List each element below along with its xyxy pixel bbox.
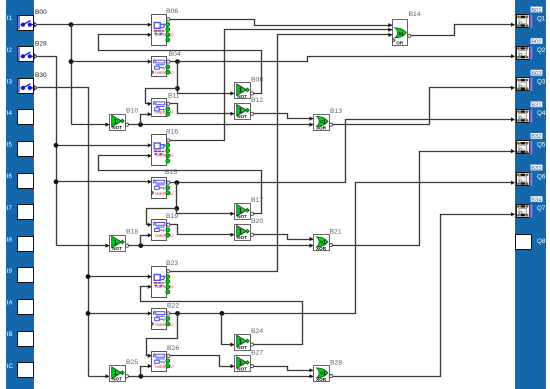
svg-text:〈MER.BA〉: 〈MER.BA〉 bbox=[153, 233, 176, 238]
svg-text:NOT: NOT bbox=[237, 94, 247, 99]
svg-text:I2: I2 bbox=[7, 47, 13, 54]
switch B00 (input I1) bbox=[7, 9, 47, 31]
svg-text:B22: B22 bbox=[167, 302, 179, 309]
wire B06 out to B14 in1 bbox=[169, 20, 393, 28]
wire B22 out to Q6 bbox=[169, 181, 515, 316]
svg-text:IC: IC bbox=[7, 363, 14, 370]
wire I2 branch to B15 in1 bbox=[54, 179, 152, 184]
svg-text:I7: I7 bbox=[7, 205, 13, 212]
input cell I8 bbox=[7, 236, 34, 251]
svg-text:I8: I8 bbox=[7, 236, 13, 243]
wire B26 out to B27 in bbox=[169, 356, 235, 369]
input cell I9 bbox=[7, 268, 34, 283]
wire B15 branch to B17 in bbox=[177, 209, 235, 216]
output lamp B03 (output Q3) bbox=[517, 70, 546, 91]
input cell I5 bbox=[7, 142, 34, 157]
svg-text:B32: B32 bbox=[531, 134, 541, 140]
XOR gate B28 bbox=[314, 359, 343, 382]
wire B04 out to Q2 bbox=[169, 54, 515, 64]
svg-text:Q5: Q5 bbox=[537, 142, 546, 149]
svg-text:B01: B01 bbox=[531, 8, 541, 14]
svg-text:XOR: XOR bbox=[316, 246, 327, 251]
wire I2 branch to B16 in1 bbox=[54, 143, 152, 148]
svg-text:I1: I1 bbox=[7, 15, 13, 22]
output lamp B34 (output Q7) bbox=[517, 196, 546, 217]
wire B25 branch to B26 in2 bbox=[141, 364, 152, 377]
svg-text:B06: B06 bbox=[166, 8, 178, 15]
svg-text:B26: B26 bbox=[167, 345, 179, 352]
svg-text:B34: B34 bbox=[531, 197, 542, 203]
svg-text:B17: B17 bbox=[251, 197, 263, 204]
wire B21 out to Q5 bbox=[332, 149, 515, 246]
wire B13 out to Q3 bbox=[332, 86, 515, 125]
function block B04 bbox=[151, 51, 181, 77]
svg-text:B20: B20 bbox=[251, 218, 263, 225]
wire B15 out to Q4 bbox=[169, 117, 515, 185]
OR gate B14 bbox=[392, 11, 421, 46]
svg-text:NOT: NOT bbox=[237, 367, 247, 372]
output terminal strip bbox=[515, 0, 546, 389]
svg-text:NOT: NOT bbox=[237, 235, 247, 240]
wire B04 branch to B08 in bbox=[178, 91, 235, 95]
svg-text:XOR: XOR bbox=[316, 377, 327, 382]
svg-text:B04: B04 bbox=[169, 51, 181, 58]
wire I3 branch to B22 in1 bbox=[86, 311, 152, 316]
svg-text:〈MER.BA〉: 〈MER.BA〉 bbox=[153, 153, 176, 158]
wire I1/B00 out to B06 in1 bbox=[38, 22, 152, 27]
inverter B20 bbox=[235, 218, 264, 241]
wire B10 branch to B11 in2 bbox=[141, 112, 152, 124]
wire B20 out to B21 in1 bbox=[253, 235, 314, 242]
svg-text:B23: B23 bbox=[166, 260, 178, 267]
switch B30 (input I3) bbox=[7, 72, 47, 93]
output cell Q8 bbox=[516, 235, 546, 250]
svg-text:B11: B11 bbox=[168, 93, 180, 100]
svg-text:OR: OR bbox=[396, 40, 404, 45]
wire B08 out to B06 in2 bbox=[99, 33, 262, 94]
XOR gate B21 bbox=[314, 228, 342, 251]
inverter B08 bbox=[235, 77, 264, 99]
output lamp B01 (output Q1) bbox=[517, 7, 546, 28]
wire B16 out to B14 in2 bbox=[169, 28, 393, 141]
inverter B10 bbox=[110, 108, 139, 131]
wire B25 out to B28 in2 bbox=[128, 374, 314, 379]
svg-text:B13: B13 bbox=[330, 108, 342, 115]
wire B18 branch to B19 in2 bbox=[141, 233, 152, 245]
svg-text:〈MER.BA〉: 〈MER.BA〉 bbox=[153, 32, 176, 37]
wire B10 out to B13 in2 bbox=[128, 122, 314, 127]
output lamp B02 (output Q2) bbox=[517, 38, 546, 59]
output lamp B31 (output Q4) bbox=[517, 101, 546, 122]
wire I2/B29 out to column bbox=[38, 57, 57, 246]
inverter B12 bbox=[235, 97, 264, 119]
svg-text:〈MER.BA〉: 〈MER.BA〉 bbox=[153, 109, 176, 114]
svg-text:≥1: ≥1 bbox=[399, 31, 405, 36]
svg-text:B08: B08 bbox=[251, 77, 263, 84]
svg-text:I3: I3 bbox=[7, 78, 13, 85]
svg-text:I4: I4 bbox=[7, 110, 13, 117]
svg-text:〈MER.BA〉: 〈MER.BA〉 bbox=[153, 322, 176, 327]
svg-text:B14: B14 bbox=[409, 11, 421, 18]
svg-text:〈MER.BA〉: 〈MER.BA〉 bbox=[153, 364, 176, 369]
svg-text:B31: B31 bbox=[531, 103, 541, 109]
svg-text:I9: I9 bbox=[7, 268, 13, 275]
svg-text:NOT: NOT bbox=[237, 114, 247, 119]
wire B24 out to B23 in2 bbox=[141, 285, 303, 345]
wire I1 branch to B10 in bbox=[72, 123, 110, 127]
svg-text:Q8: Q8 bbox=[537, 238, 546, 245]
wire B18 out to B21 in2 bbox=[128, 243, 314, 248]
svg-text:〈MER.BA〉: 〈MER.BA〉 bbox=[153, 70, 176, 75]
svg-text:Q6: Q6 bbox=[537, 173, 546, 180]
output lamp B33 (output Q6) bbox=[517, 165, 546, 186]
svg-text:B29: B29 bbox=[35, 41, 47, 48]
wire I1 branch down bbox=[71, 25, 73, 125]
wire I3/B30 out to column bbox=[38, 88, 89, 377]
function block B26 bbox=[152, 345, 180, 372]
svg-text:B10: B10 bbox=[126, 108, 138, 115]
wire B12 out to B13 in1 bbox=[253, 114, 314, 121]
wire B04 out branch down bbox=[175, 62, 180, 94]
svg-text:XOR: XOR bbox=[316, 125, 327, 130]
input terminal strip bbox=[6, 0, 34, 389]
function block B23 bbox=[152, 260, 179, 298]
switch B29 (input I2) bbox=[7, 41, 47, 62]
svg-text:NOT: NOT bbox=[112, 125, 122, 130]
wire I2 to B18 in bbox=[57, 244, 110, 248]
svg-text:B00: B00 bbox=[35, 9, 47, 16]
wire B14 out to Q1 bbox=[410, 23, 515, 36]
svg-text:B30: B30 bbox=[35, 72, 47, 79]
inverter B17 bbox=[235, 197, 264, 220]
input cell IB bbox=[7, 331, 34, 346]
wire B22 branch to B24 in bbox=[222, 314, 235, 347]
svg-text:B02: B02 bbox=[531, 39, 541, 45]
input cell IC bbox=[7, 363, 34, 378]
wire I3 to B25 in bbox=[89, 374, 110, 378]
svg-text:B16: B16 bbox=[166, 129, 178, 136]
svg-text:B19: B19 bbox=[166, 213, 178, 220]
svg-text:NOT: NOT bbox=[112, 246, 122, 251]
svg-text:Q2: Q2 bbox=[537, 47, 546, 54]
svg-text:IA: IA bbox=[7, 300, 14, 307]
svg-text:I6: I6 bbox=[7, 173, 13, 180]
svg-text:B24: B24 bbox=[251, 328, 263, 335]
svg-text:B21: B21 bbox=[330, 228, 342, 235]
svg-text:B15: B15 bbox=[165, 169, 177, 176]
wire I1 branch to B04 in1 bbox=[69, 59, 152, 64]
wire B17 out to B16 in2 bbox=[99, 154, 262, 214]
svg-text:B28: B28 bbox=[330, 359, 342, 366]
function block B16 bbox=[152, 129, 179, 166]
wire B11 out to B12 in bbox=[169, 104, 235, 116]
inverter B27 bbox=[235, 349, 264, 371]
wire B15 branch to B19 in1 bbox=[147, 209, 177, 227]
svg-text:Q4: Q4 bbox=[537, 110, 546, 117]
input cell I6 bbox=[7, 173, 34, 188]
wire B28 out to Q7 bbox=[332, 212, 515, 376]
svg-text:I5: I5 bbox=[7, 142, 13, 149]
function block B06 bbox=[152, 8, 179, 46]
svg-text:NOT: NOT bbox=[112, 377, 122, 382]
svg-text:IB: IB bbox=[7, 331, 13, 338]
svg-text:B33: B33 bbox=[531, 166, 541, 172]
wire B19 out to B20 in bbox=[169, 225, 235, 237]
svg-text:NOT: NOT bbox=[237, 214, 247, 219]
svg-text:B12: B12 bbox=[251, 97, 263, 104]
wire B27 out to B28 in1 bbox=[253, 367, 314, 373]
svg-text:B03: B03 bbox=[531, 71, 541, 77]
function block B11 bbox=[152, 93, 180, 117]
function block B22 bbox=[151, 302, 179, 329]
svg-text:〈MER.BA〉: 〈MER.BA〉 bbox=[153, 284, 176, 289]
wire B22 branch to B26 in1 bbox=[147, 314, 178, 358]
function block B19 bbox=[152, 213, 179, 241]
inverter B18 bbox=[110, 229, 139, 252]
input cell I7 bbox=[7, 205, 34, 220]
svg-text:NOT: NOT bbox=[237, 345, 247, 350]
svg-text:B18: B18 bbox=[126, 229, 138, 236]
output lamp B32 (output Q5) bbox=[517, 133, 546, 154]
input cell I4 bbox=[7, 110, 34, 125]
svg-text:Q1: Q1 bbox=[537, 15, 546, 22]
inverter B24 bbox=[235, 328, 264, 351]
svg-text:Q7: Q7 bbox=[537, 205, 546, 212]
svg-text:〈MER.BA〉: 〈MER.BA〉 bbox=[153, 191, 176, 196]
svg-text:B25: B25 bbox=[126, 359, 138, 366]
svg-text:Q3: Q3 bbox=[537, 79, 546, 86]
wire B23 out to B14 in3 bbox=[169, 33, 393, 272]
input cell IA bbox=[7, 300, 34, 315]
wire B04 branch to B11 in1 bbox=[146, 89, 178, 106]
wire B15 out branch down bbox=[174, 183, 179, 211]
wire I3 branch to B23 in1 bbox=[86, 274, 152, 279]
function block B15 bbox=[151, 169, 177, 199]
XOR gate B13 bbox=[314, 108, 343, 131]
inverter B25 bbox=[110, 359, 139, 382]
svg-text:B27: B27 bbox=[251, 349, 263, 356]
